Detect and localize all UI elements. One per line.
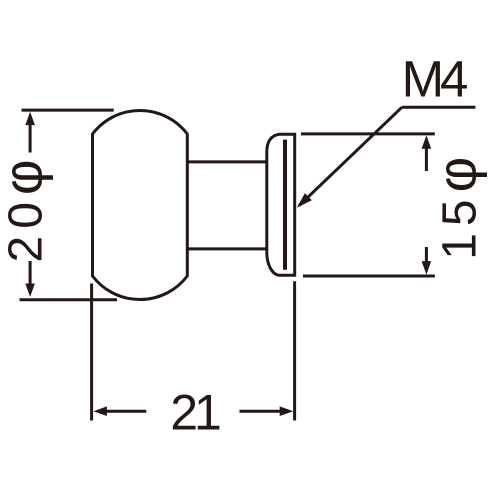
dim 20phi bottom extension line (20, 298, 118, 301)
dim 21 right extension line (293, 281, 296, 420)
flange face line (283, 140, 287, 270)
dim 21 left arrowhead (93, 406, 107, 416)
dim 20phi bottom arrow stem (29, 261, 32, 286)
stem bottom line (187, 247, 266, 250)
dim 21 right arrowhead (280, 406, 294, 416)
dim 21 right arrow stem (240, 410, 281, 413)
M4 leader underline (402, 106, 475, 109)
dim 20phi top extension line (22, 109, 114, 112)
dim 20phi top arrow stem (29, 123, 32, 153)
dim 15phi down arrowhead (422, 261, 432, 275)
dim 20phi down arrowhead (25, 284, 35, 298)
svg-text:15φ: 15φ (426, 150, 488, 260)
dim 15phi up arrowhead (422, 135, 432, 149)
dim 15phi down arrow stem (425, 247, 428, 263)
flange outline (267, 134, 295, 275)
svg-text:M4: M4 (402, 50, 467, 107)
svg-text:20φ: 20φ (0, 152, 54, 262)
knob body (93, 110, 188, 299)
M4 leader arrowhead (297, 193, 312, 208)
dim 20phi up arrowhead (25, 112, 35, 126)
dim 15phi bottom extension line (303, 275, 435, 278)
svg-text:21: 21 (170, 385, 220, 441)
M4 leader diagonal (299, 107, 402, 206)
stem top line (187, 160, 266, 163)
dim 21 left arrow stem (106, 410, 147, 413)
dim 15phi top extension line (301, 132, 435, 135)
dim 15phi up arrow stem (425, 147, 428, 171)
dim 21 left extension line (90, 284, 93, 421)
